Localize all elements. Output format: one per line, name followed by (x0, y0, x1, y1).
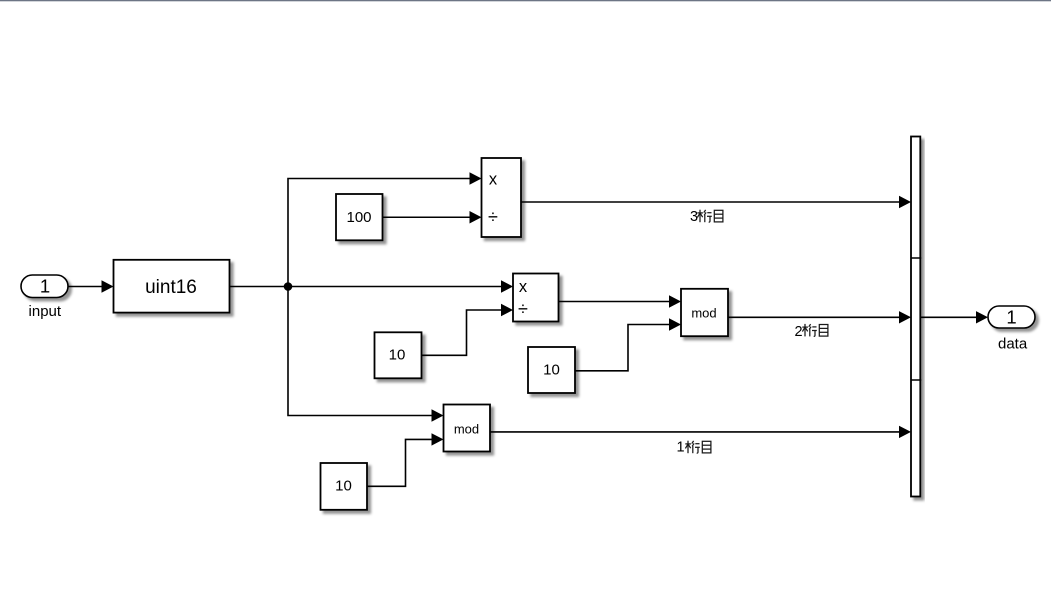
svg-text:input: input (29, 303, 62, 320)
label 1 keta-me (677, 440, 711, 456)
svg-text:10: 10 (389, 347, 406, 364)
svg-text:x: x (489, 171, 498, 189)
mux block (vertical bar) (911, 137, 921, 497)
mod block 2 (444, 405, 491, 452)
svg-text:uint16: uint16 (145, 277, 197, 298)
svg-text:data: data (998, 335, 1028, 352)
svg-text:mod: mod (691, 306, 716, 321)
mod block 1 (681, 289, 728, 336)
wire 10b to mod1 input2 (575, 318, 681, 371)
svg-text:3: 3 (690, 209, 698, 225)
label 2 keta-me (795, 324, 828, 340)
wire branch up to divide1 input1 (288, 172, 482, 286)
divide block 2 (x over divide) (513, 274, 559, 322)
wire mod1 output to mux input2 (728, 311, 911, 323)
outport block Out1 (oval "1") (988, 306, 1035, 328)
wire divide1 output to mux input1 (521, 196, 911, 208)
divide block 1 (x over divide) (482, 158, 522, 237)
svg-text:2: 2 (795, 324, 803, 340)
wire mod2 output to mux input3 (490, 426, 911, 438)
svg-text:100: 100 (346, 209, 371, 226)
inport block In1 (oval "1") (21, 275, 68, 298)
wire branch down to mod2 input1 (288, 287, 444, 422)
wire In1 to uint16 (68, 280, 114, 292)
wire mux output to outport (921, 311, 989, 323)
svg-text:÷: ÷ (488, 207, 498, 227)
constant block 10 (c) (321, 463, 368, 510)
wire uint16 to junction to divide2 input1 (230, 280, 514, 292)
svg-text:10: 10 (335, 478, 352, 495)
wire 10c to mod2 input2 (367, 433, 444, 486)
constant block 10 (a) (375, 332, 422, 378)
svg-text:mod: mod (454, 422, 479, 437)
svg-text:1: 1 (40, 275, 50, 296)
top window edge line (0, 0, 1051, 1)
wire 10a to divide2 input2 (422, 304, 514, 356)
data type conversion block uint16 (114, 260, 230, 313)
label 3 keta-me (690, 209, 723, 225)
constant block 10 (b) (528, 347, 575, 393)
svg-text:÷: ÷ (518, 299, 528, 319)
wire divide2 output to mod1 input1 (559, 295, 682, 307)
svg-text:10: 10 (543, 362, 560, 379)
wire 100 to divide1 input2 (383, 211, 482, 223)
svg-text:1: 1 (1006, 307, 1016, 328)
junction dot (284, 282, 293, 291)
constant block 100 (336, 194, 383, 240)
svg-text:1: 1 (677, 440, 685, 456)
svg-text:x: x (519, 278, 528, 296)
